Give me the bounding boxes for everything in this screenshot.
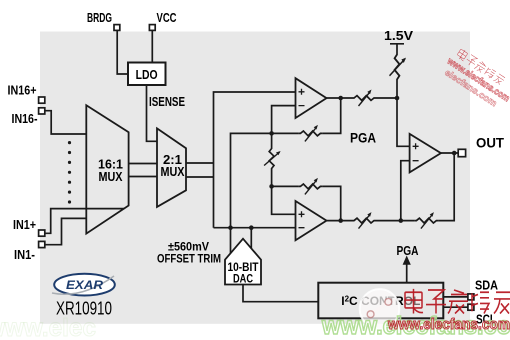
svg-text:IN1+: IN1+: [13, 218, 36, 232]
junction DAC left on minus rail: [228, 225, 233, 230]
resistor pull-up 1.5V: [390, 52, 407, 82]
svg-text:PGA: PGA: [350, 131, 376, 146]
wire N1 to DAC left: [231, 133, 272, 253]
op-amp top PGA: [296, 78, 327, 118]
node N1: [269, 131, 274, 136]
pin pad BRDG: [114, 25, 120, 31]
svg-text:MUX: MUX: [161, 165, 186, 179]
wire gain network vertical: [271, 133, 273, 186]
wire riser to output buffer - input: [401, 161, 410, 221]
supply bar 1.5V: [390, 44, 404, 98]
wire top PGA output to node: [327, 97, 353, 99]
watermark top-right rotated: [439, 45, 510, 113]
pin pad IN16-: [39, 108, 45, 114]
wire N2 to bottom PGA + input: [272, 186, 296, 214]
wire DAC right to minus rail: [250, 228, 252, 249]
controller I2C CONTROL: [318, 283, 443, 319]
svg-text:DAC: DAC: [233, 274, 253, 286]
resistor bottom rail B: [414, 212, 438, 229]
chip body shaded region: [40, 32, 470, 324]
wire bottom feedback branch: [272, 186, 341, 220]
regulator U-LDO: [128, 63, 166, 86]
svg-text:www.elecfans.com: www.elecfans.com: [387, 316, 510, 333]
svg-text:1.5V: 1.5V: [384, 29, 414, 43]
wire riser to top PGA + input: [214, 92, 296, 228]
node 1.5V junction: [395, 96, 400, 101]
watermark red chinese characters: [405, 289, 510, 314]
resistor top rail: [352, 90, 376, 107]
wire 2:1 MUX output A: [186, 162, 214, 164]
svg-text:ISENSE: ISENSE: [149, 95, 185, 109]
watermark bottom-right circle logo: [360, 289, 400, 329]
node bottom PGA output: [338, 218, 343, 223]
svg-text:www.elec: www.elec: [0, 314, 96, 340]
logo EXAR: [52, 274, 115, 296]
resistor bottom rail A: [352, 212, 376, 229]
multiplexer 16:1 MUX: [86, 105, 128, 233]
pin pad IN16+: [39, 97, 45, 103]
resistor top feedback: [298, 125, 322, 142]
svg-text:BRDG: BRDG: [87, 11, 112, 25]
wire riser to bottom PGA - rail: [214, 227, 296, 229]
svg-text:MUX: MUX: [99, 170, 124, 184]
svg-text:OUT: OUT: [476, 136, 505, 151]
arrow I2C to PGA: [406, 264, 408, 283]
pin pad VCC: [149, 25, 155, 31]
pin pad OUT: [458, 149, 465, 156]
wire 2:1 MUX output B: [186, 176, 214, 178]
svg-text:IN1-: IN1-: [14, 248, 35, 262]
node minus riser: [399, 218, 404, 223]
junction DAC right on minus rail: [249, 225, 254, 230]
op-amp output buffer: [410, 134, 441, 173]
wire I2C to SCL: [443, 306, 468, 308]
wire I2C to SDA: [443, 296, 468, 298]
dac 10-BIT DAC: [225, 239, 261, 285]
wire top rail to 1.5V node: [376, 97, 397, 99]
pin pad IN1-: [39, 241, 45, 247]
node feedback tap: [452, 151, 457, 156]
wire top PGA - input: [272, 106, 296, 134]
ellipsis dots for inputs 2..15: [68, 141, 71, 204]
svg-text:10-BIT: 10-BIT: [228, 262, 259, 274]
svg-text:VCC: VCC: [157, 11, 177, 25]
wire IN16- to 16:1 MUX: [45, 111, 87, 134]
wire bottom rail: [376, 153, 454, 221]
resistor gain vertical: [264, 147, 281, 171]
svg-text:PGA: PGA: [397, 243, 419, 258]
wire DAC to I2C control: [243, 285, 318, 302]
wire IN1+ to 16:1 MUX: [45, 209, 125, 234]
node top PGA output: [338, 96, 343, 101]
wire BRDG to LDO: [117, 30, 128, 74]
wire ISENSE: LDO to 2:1 MUX: [147, 85, 158, 141]
svg-text:IN16-: IN16-: [12, 112, 38, 126]
wire buffer output to OUT: [441, 152, 458, 154]
op-amp bottom PGA: [296, 201, 327, 240]
wire 16:1 MUX out A to 2:1 MUX: [129, 163, 158, 165]
pin pad SCL: [468, 304, 474, 310]
wire bottom PGA output: [327, 220, 353, 222]
resistor bottom feedback: [298, 178, 322, 195]
wire IN1- to 16:1 MUX: [45, 218, 87, 244]
multiplexer 2:1 MUX: [157, 128, 186, 207]
svg-text:LDO: LDO: [136, 68, 158, 82]
svg-text:IN16+: IN16+: [8, 84, 37, 98]
svg-text:SDA: SDA: [475, 279, 498, 293]
svg-text:OFFSET TRIM: OFFSET TRIM: [157, 252, 221, 266]
wire 16:1 MUX out B to 2:1 MUX: [129, 176, 158, 178]
pin pad SDA: [468, 294, 474, 300]
node N2: [269, 184, 274, 189]
pin pad IN1+: [39, 230, 45, 236]
svg-text:EXAR: EXAR: [66, 280, 104, 292]
wire top feedback branch: [272, 98, 341, 133]
wire node to output buffer + input: [397, 98, 410, 146]
wire VCC to LDO: [151, 30, 153, 62]
